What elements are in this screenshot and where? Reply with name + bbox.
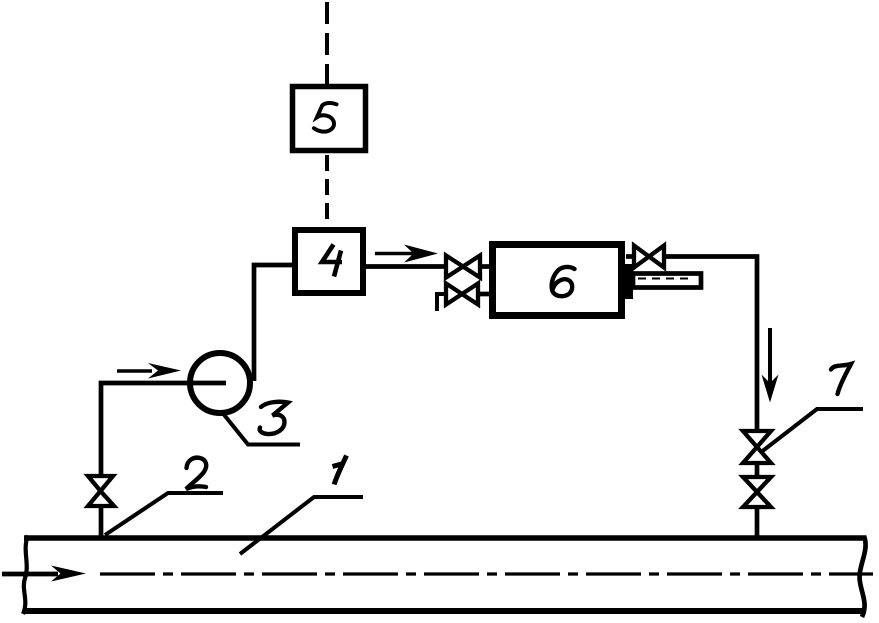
label 3 xyxy=(260,402,288,434)
wire valve 7 lower to pipe 1 xyxy=(755,507,760,539)
box 4 xyxy=(295,230,363,293)
wire valve C right and down to valves 7 xyxy=(664,257,757,433)
valve 7 lower xyxy=(743,477,771,507)
thermowell flange on box 6 xyxy=(625,264,633,299)
thermowell pocket tube xyxy=(633,274,701,288)
dashed link box 4 to box 5 xyxy=(325,155,329,226)
valve C (outlet of box 6) xyxy=(626,246,664,268)
label 2 xyxy=(186,458,206,489)
label 4 xyxy=(322,245,342,277)
leader line label 7 xyxy=(760,409,863,453)
valve 7 upper xyxy=(743,431,771,463)
pipe 1 top edge xyxy=(24,535,866,540)
pipe 1 left break line xyxy=(23,536,28,615)
leader line label 3 xyxy=(221,411,300,445)
pipe 1 bottom edge xyxy=(23,608,864,614)
pipe 1 centerline (dash-dot) xyxy=(100,572,873,575)
label 6 xyxy=(552,267,575,296)
flow arrow into pipe 1 xyxy=(2,566,86,582)
valve A (upper inlet of box 6) xyxy=(446,256,492,278)
flow arrow before circle 3 xyxy=(117,363,181,379)
box 5 xyxy=(293,87,366,151)
wire box 4 to valve A xyxy=(366,264,447,269)
drain stub left of valve B xyxy=(437,294,446,311)
pipe 1 right break line xyxy=(860,536,866,617)
wire circle 3 up to box 4 xyxy=(254,265,293,381)
valve 2 xyxy=(88,476,114,506)
label 7 xyxy=(831,364,851,394)
wire from pipe to valve 2 xyxy=(99,504,104,539)
flow arrow downward xyxy=(762,328,779,403)
pump/device circle 3 xyxy=(190,353,250,413)
wire between valves 7 xyxy=(755,463,760,477)
flow arrow box 4 to box 6 xyxy=(375,245,438,263)
box 6 xyxy=(493,245,622,316)
leader line label 1 xyxy=(240,497,363,554)
dashed line above box 5 xyxy=(325,2,329,84)
leader line label 2 xyxy=(105,493,223,535)
label 5 xyxy=(314,103,337,132)
wire valve 2 up and right into circle 3 xyxy=(101,383,226,478)
valve B (drain, lower inlet of box 6) xyxy=(446,284,492,305)
label 1 xyxy=(333,456,347,485)
